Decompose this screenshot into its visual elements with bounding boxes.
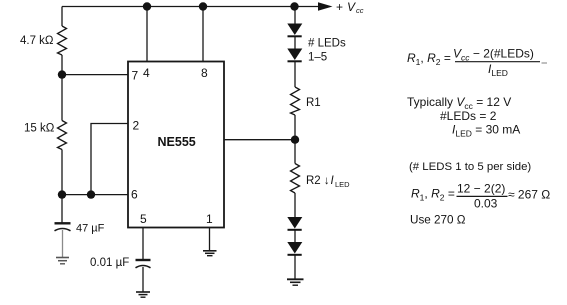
svg-text:#LEDs = 2: #LEDs = 2 xyxy=(440,109,497,123)
svg-text:7: 7 xyxy=(132,69,139,83)
svg-text:NE555: NE555 xyxy=(158,135,196,149)
svg-text:8: 8 xyxy=(201,66,208,80)
LED D1 xyxy=(287,24,302,38)
resistor R 4.7k xyxy=(58,26,67,55)
svg-text:V: V xyxy=(347,0,356,14)
svg-text:4.7 kΩ: 4.7 kΩ xyxy=(20,35,54,47)
svg-text:2: 2 xyxy=(133,119,140,133)
label +Vcc xyxy=(336,0,364,15)
wire pin4 vertical xyxy=(146,7,148,62)
wire between LED1 and LED2 xyxy=(294,37,296,49)
svg-text:ILED: ILED xyxy=(488,62,508,78)
svg-text:1: 1 xyxy=(206,212,213,226)
svg-text:R2 ↓: R2 ↓ xyxy=(306,175,330,187)
svg-text:1–5: 1–5 xyxy=(308,52,327,64)
svg-text:0.03: 0.03 xyxy=(474,197,498,211)
LED D3 xyxy=(287,217,302,231)
svg-text:15 kΩ: 15 kΩ xyxy=(24,123,55,135)
wire pin1 vertical xyxy=(209,228,211,251)
svg-text:4: 4 xyxy=(143,66,150,80)
resistor R1 xyxy=(291,87,300,115)
ground below 0.01uF xyxy=(136,292,150,297)
wire R1 to node xyxy=(294,115,296,164)
wire LED4 to ground xyxy=(294,255,296,279)
svg-text:Use 270 Ω: Use 270 Ω xyxy=(410,214,466,227)
node junction top pin8 xyxy=(199,2,207,10)
svg-text:# LEDs: # LEDs xyxy=(308,38,346,50)
wire pin6 horizontal xyxy=(62,194,128,196)
svg-text:47 µF: 47 µF xyxy=(76,223,105,235)
wire R2 to LED3 xyxy=(294,193,296,217)
node junction top LED column xyxy=(290,2,298,10)
op-amp/timer U1 NE555 box xyxy=(128,62,224,228)
node junction output xyxy=(291,136,299,144)
node junction top pin4 xyxy=(143,2,151,10)
svg-text:LED: LED xyxy=(335,180,350,189)
resistor R2 xyxy=(291,164,300,194)
svg-text:ILED = 30 mA: ILED = 30 mA xyxy=(452,123,520,139)
node junction pin2 loop xyxy=(87,190,95,198)
text Typically Vcc = 12 V xyxy=(407,95,520,139)
svg-text:R1, R2 =: R1, R2 = xyxy=(411,187,455,203)
svg-text:6: 6 xyxy=(131,188,138,202)
svg-text:12 − 2(2): 12 − 2(2) xyxy=(457,182,505,196)
wire between LED3 and LED4 xyxy=(294,230,296,242)
wire LED2 to R1 xyxy=(294,62,296,88)
wire pin2 loop xyxy=(91,124,128,195)
svg-text:Vcc − 2(#LEDs): Vcc − 2(#LEDs) xyxy=(453,47,534,63)
svg-text:cc: cc xyxy=(356,6,364,15)
svg-text:R1: R1 xyxy=(306,97,321,109)
wire pin7 horizontal xyxy=(62,74,128,76)
wire top rail Vcc xyxy=(62,6,319,8)
capacitor C 0.01uF xyxy=(136,260,151,292)
svg-text:R1, R2 =: R1, R2 = xyxy=(407,51,451,67)
wire left vertical lower xyxy=(61,150,63,224)
svg-text:(# LEDS 1 to 5 per side): (# LEDS 1 to 5 per side) xyxy=(409,161,531,173)
label R2 with ILED xyxy=(306,175,350,189)
LED D4 xyxy=(287,242,302,256)
node junction pin7 left xyxy=(58,70,66,78)
formula R1,R2 = (Vcc - 2(#LEDs))/ILED xyxy=(407,47,547,79)
wire pin3 output horizontal xyxy=(224,139,295,141)
wire LED column upper xyxy=(294,7,296,24)
wire pin5 vertical xyxy=(142,228,144,260)
ground below 47uF xyxy=(56,258,69,264)
wire left vertical top xyxy=(61,7,63,27)
svg-text:0.01 µF: 0.01 µF xyxy=(90,257,129,269)
wire left vertical mid xyxy=(61,55,63,121)
ground below pin1 xyxy=(203,251,217,256)
LED D2 xyxy=(287,49,302,63)
resistor R 15k xyxy=(58,121,67,150)
svg-text:≈ 267 Ω: ≈ 267 Ω xyxy=(508,188,550,202)
svg-text:5: 5 xyxy=(140,212,147,226)
ground below LED column xyxy=(287,279,304,285)
formula R1,R2 = (12-2(2))/0.03 = 267 Ohm xyxy=(411,182,550,211)
node junction pin6 left xyxy=(58,190,66,198)
capacitor C 47uF xyxy=(55,223,71,257)
svg-text:I: I xyxy=(331,175,335,187)
arrow to Vcc xyxy=(318,2,333,11)
svg-text:+: + xyxy=(336,0,343,14)
wire pin8 vertical xyxy=(202,7,204,62)
